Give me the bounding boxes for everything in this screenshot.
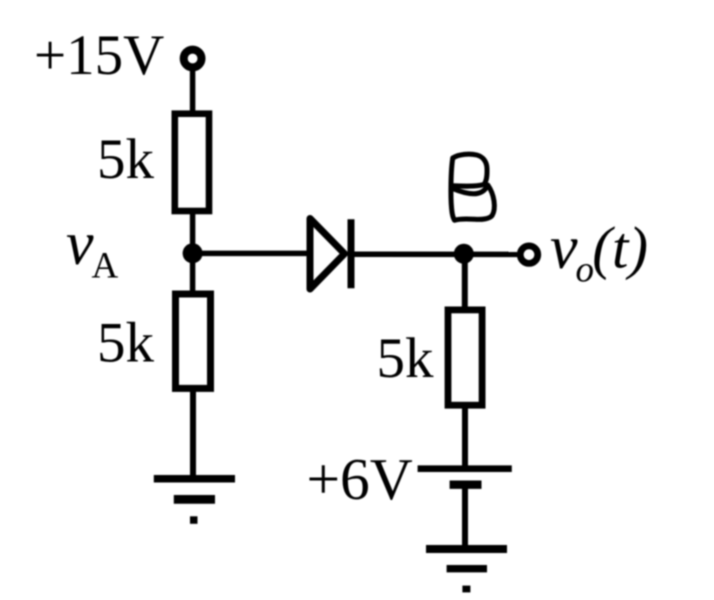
svg-text:v: v bbox=[66, 210, 94, 278]
svg-text:(t): (t) bbox=[592, 215, 648, 281]
svg-text:5k: 5k bbox=[97, 128, 155, 191]
svg-text:5k: 5k bbox=[97, 312, 155, 375]
svg-text:5k: 5k bbox=[377, 327, 435, 390]
svg-text:+15V: +15V bbox=[34, 24, 164, 87]
svg-text:A: A bbox=[92, 246, 119, 287]
svg-text:v: v bbox=[550, 214, 578, 282]
svg-text:o: o bbox=[576, 250, 595, 291]
svg-text:+6V: +6V bbox=[307, 446, 413, 512]
